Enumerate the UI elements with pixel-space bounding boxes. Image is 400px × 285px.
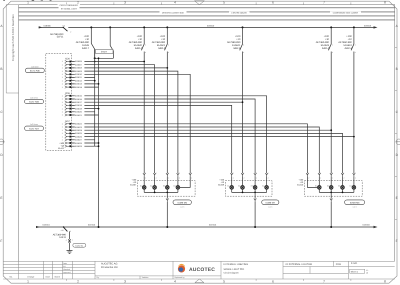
- svg-text:51B016: 51B016: [364, 25, 372, 28]
- pin 1 wire 51B010: [62, 73, 190, 173]
- svg-text:51B024: 51B024: [75, 129, 83, 132]
- svg-text:Tradition: Tradition: [142, 276, 149, 279]
- svg-text:XD6: XD6: [65, 58, 70, 61]
- title block frame: [3, 261, 395, 279]
- contact K5: [227, 26, 244, 173]
- svg-text:51B019: 51B019: [75, 107, 83, 110]
- bus line L2: [19, 11, 395, 13]
- pin 1 wire 51B021: [62, 114, 99, 117]
- wire 51B016 vertical: [0, 0, 321, 186]
- svg-text:2: 2: [77, 0, 79, 4]
- svg-text:51B006: 51B006: [75, 60, 83, 63]
- AD7 location text: [58, 142, 65, 150]
- svg-text:E: E: [0, 196, 2, 200]
- wire 51B008 vertical: [0, 0, 169, 186]
- svg-text:1: 1: [62, 104, 63, 107]
- svg-text:F: F: [0, 239, 2, 243]
- svg-text:Sheet 1: Sheet 1: [351, 270, 359, 273]
- switch 51F11: [63, 27, 67, 31]
- pin 1 wire 51B007: [62, 63, 155, 173]
- svg-text:51B012: 51B012: [75, 80, 83, 83]
- svg-text:1: 1: [62, 142, 63, 145]
- contact K4: [152, 26, 169, 173]
- cable capsule 51X1-A08: [25, 96, 44, 103]
- svg-text:E2: E2: [238, 185, 240, 188]
- svg-text:51A09: 51A09: [218, 184, 225, 187]
- wire 51B010 vertical: [0, 0, 192, 187]
- pin 1 wire 51B017: [62, 101, 244, 104]
- cable capsule 51X1-A06: [25, 65, 44, 72]
- svg-text:1: 1: [72, 238, 73, 241]
- svg-text:2019: 2019: [336, 263, 342, 266]
- bus label CENTRE ABOVE: [229, 12, 250, 15]
- lamp group M6 dashed box: [137, 181, 195, 197]
- drop wire to rail: [254, 192, 257, 227]
- svg-text:51B020: 51B020: [75, 111, 83, 114]
- lamp group M7 location text: [218, 178, 225, 186]
- pin 1 wire 51B020: [62, 111, 95, 114]
- lamp M6 E2: [150, 185, 156, 193]
- svg-text:/H92.4: /H92.4: [322, 47, 330, 50]
- svg-text:EXTERNAL LIGHTING: EXTERNAL LIGHTING: [224, 263, 249, 266]
- svg-text:3: 3: [124, 0, 126, 4]
- wire 51B015 vertical: [0, 0, 317, 187]
- pin 1 wire 51B012: [62, 79, 96, 82]
- pin 1 wire 51B014: [62, 86, 99, 89]
- svg-text:51MB-M6: 51MB-M6: [177, 202, 187, 205]
- pin 1 wire 51B015: [62, 95, 267, 174]
- bottom ticks: [67, 279, 351, 281]
- svg-text:AUCOTEC: AUCOTEC: [189, 267, 215, 273]
- svg-text:Name: Name: [55, 276, 61, 279]
- right centering mark: [396, 139, 400, 145]
- top column digits: [27, 0, 386, 4]
- svg-text:2: 2: [77, 279, 79, 283]
- capsule 51MB-M6: [173, 200, 191, 208]
- pin 1 wire 51B027: [62, 139, 95, 142]
- svg-text:No.: No.: [9, 276, 13, 279]
- wire 51B017 vertical: [0, 0, 333, 186]
- svg-text:51F11: 51F11: [57, 36, 64, 39]
- svg-text:1x2.5: 1x2.5: [353, 205, 357, 208]
- right cells: [286, 262, 369, 274]
- link box H927: [96, 49, 114, 53]
- svg-text:5: 5: [223, 0, 225, 4]
- pin 1 wire 51B024: [62, 129, 332, 132]
- wire 51B007 vertical: [0, 0, 157, 186]
- svg-text:51B019: 51B019: [0, 0, 55, 4]
- svg-text:51E015: 51E015: [88, 224, 96, 227]
- company cell: [97, 262, 185, 279]
- svg-text:E: E: [396, 196, 398, 200]
- project cell: [224, 263, 249, 274]
- bus label DRIVERS LOWER SIDE: [160, 11, 187, 14]
- feed arrow right: [374, 26, 378, 28]
- svg-text:7: 7: [323, 279, 325, 283]
- svg-text:1: 1: [62, 114, 63, 117]
- wire 51B014 vertical: [0, 0, 269, 186]
- svg-text:51B018: 51B018: [75, 104, 83, 107]
- cable capsule 51X1-A07: [25, 123, 44, 130]
- contact K2: [109, 26, 113, 53]
- svg-text:51MB-M7: 51MB-M7: [266, 202, 276, 205]
- svg-text:/H92.4: /H92.4: [135, 47, 143, 50]
- pin 1 wire 51B025: [62, 132, 343, 173]
- svg-text:1: 1: [62, 132, 63, 135]
- svg-text:Copyright nach ISO 16016 beach: Copyright nach ISO 16016 beachten: [11, 14, 15, 61]
- svg-text:/H92.4: /H92.4: [158, 47, 166, 50]
- junction: [330, 192, 332, 194]
- copyright strip: [6, 5, 18, 93]
- svg-text:1: 1: [62, 101, 63, 104]
- top centering triangle: [194, 1, 204, 5]
- K1-K2 join wire: [95, 53, 114, 58]
- svg-text:ElCable Rel 400: ElCable Rel 400: [101, 266, 118, 269]
- svg-text:E4: E4: [350, 185, 352, 188]
- svg-text:SIGNAL LIGHT PD1: SIGNAL LIGHT PD1: [224, 268, 246, 271]
- pin 1 wire 51B018: [62, 104, 232, 173]
- capsule 51MB-M7: [262, 200, 279, 208]
- bus label COMPANION SIDE LOWER: [330, 12, 361, 15]
- svg-text:6: 6: [272, 0, 274, 4]
- junction: [342, 192, 344, 194]
- svg-text:51B015: 51B015: [75, 95, 83, 98]
- bottom-left switch 51E11: [64, 227, 68, 231]
- pin 1 wire 51B019: [62, 107, 100, 110]
- lamp M7 E1: [227, 185, 233, 193]
- svg-text:51B010: 51B010: [207, 25, 215, 28]
- pin 1 wire 51B026: [62, 135, 355, 138]
- pin 1 wire 51B009: [62, 70, 178, 173]
- junction: [242, 192, 244, 194]
- svg-text:7: 7: [323, 0, 325, 4]
- svg-text:Circuit Diagram: Circuit Diagram: [224, 271, 239, 274]
- lamp M7 E2: [238, 185, 244, 193]
- approval labels: [63, 262, 70, 274]
- svg-text:1x2.5mm: 1x2.5mm: [30, 96, 38, 99]
- right row letters: [396, 24, 399, 243]
- svg-text:1: 1: [27, 279, 29, 283]
- junction: [254, 192, 256, 194]
- junction: [154, 192, 156, 194]
- pin 1 wire 51B028: [62, 142, 100, 145]
- lamp M6 E4: [174, 185, 180, 193]
- svg-text:E3: E3: [251, 185, 253, 188]
- svg-text:1: 1: [62, 63, 63, 66]
- svg-text:51B010: 51B010: [75, 73, 83, 76]
- svg-text:51B011: 51B011: [75, 76, 83, 79]
- svg-text:AUCOTEC AG: AUCOTEC AG: [101, 262, 117, 265]
- contact K6: [316, 26, 333, 173]
- lamp M8 E1: [315, 185, 321, 193]
- wire 51B011 vertical: [0, 0, 234, 186]
- svg-text:/H92.7: /H92.7: [82, 47, 90, 50]
- svg-text:51E015: 51E015: [209, 224, 217, 227]
- 51E11 capsule 51X1-E1: [73, 243, 86, 247]
- svg-text:1: 1: [62, 123, 63, 126]
- svg-text:F: F: [396, 239, 398, 243]
- svg-text:51MB-M8: 51MB-M8: [350, 202, 360, 205]
- lamp M8 E3: [338, 185, 344, 193]
- lamp M7 E4: [262, 185, 268, 193]
- svg-text:1: 1: [62, 135, 63, 138]
- pin 1 wire 51B022: [62, 123, 308, 174]
- svg-text:IR SIGNAL LIGHT: IR SIGNAL LIGHT: [61, 7, 78, 10]
- wire 51B013 vertical: [0, 0, 257, 186]
- svg-text:1: 1: [62, 70, 63, 73]
- svg-text:51X1-E1: 51X1-E1: [75, 244, 84, 247]
- wire 51B019 vertical: [0, 0, 356, 186]
- svg-text:XD6: XD6: [65, 92, 70, 95]
- bus line L3: [19, 15, 395, 17]
- svg-text:1: 1: [62, 95, 63, 98]
- svg-text:E3: E3: [338, 185, 340, 188]
- wire 51B009 vertical: [0, 0, 180, 186]
- svg-text:+10: +10: [61, 229, 64, 232]
- left row letters: [0, 24, 3, 243]
- svg-text:51B016: 51B016: [75, 98, 83, 101]
- svg-text:E4: E4: [262, 185, 264, 188]
- svg-text:51E014: 51E014: [43, 224, 51, 227]
- svg-text:01 EXTERNAL LIGHTING: 01 EXTERNAL LIGHTING: [286, 263, 313, 266]
- svg-text:51E016: 51E016: [363, 224, 371, 227]
- svg-text:E4: E4: [174, 185, 176, 188]
- right ticks: [395, 48, 397, 220]
- lamp group M8 dashed box: [304, 181, 362, 197]
- svg-text:DRIVERS LOWER SIDE: DRIVERS LOWER SIDE: [162, 11, 185, 14]
- svg-text:+100: +100: [219, 178, 225, 181]
- rail junctions: [98, 226, 100, 228]
- svg-text:1: 1: [62, 111, 63, 114]
- pin 1 wire 51B016: [62, 98, 255, 174]
- wire 51B006 vertical: [0, 0, 146, 186]
- feed source arrow: [39, 26, 43, 28]
- lamp M6 E1: [140, 185, 146, 193]
- bottom centering triangle: [195, 279, 204, 283]
- wire 51B012 vertical: [0, 0, 245, 186]
- svg-text:Date: Date: [63, 262, 67, 265]
- bus line L4: [19, 19, 395, 21]
- svg-text:1: 1: [62, 107, 63, 110]
- feed wire switched line: [39, 26, 376, 28]
- lamp group M7 dashed box: [225, 181, 272, 197]
- lamp group M6 location text: [130, 178, 137, 186]
- svg-text:COMPANION SIDE LOWER: COMPANION SIDE LOWER: [333, 12, 359, 15]
- bus label IR SIGNAL LIGHT: [59, 7, 80, 10]
- svg-text:1: 1: [62, 79, 63, 82]
- svg-text:1: 1: [62, 67, 63, 70]
- svg-text:E2: E2: [150, 185, 152, 188]
- svg-text:/H92.4: /H92.4: [233, 47, 241, 50]
- svg-text:51A07: 51A07: [130, 184, 137, 187]
- svg-text:51A10: 51A10: [297, 184, 304, 187]
- contact K1: [76, 26, 95, 58]
- lamp group M7 bus: [232, 191, 267, 193]
- svg-text:51B014: 51B014: [75, 86, 83, 89]
- lamp M6 E3: [163, 185, 169, 193]
- svg-text:1: 1: [62, 76, 63, 79]
- top ticks: [67, 2, 351, 4]
- pin 1 wire 51B008: [62, 67, 168, 70]
- junction: [94, 57, 96, 59]
- svg-text:51B023: 51B023: [75, 126, 83, 129]
- svg-text:1: 1: [62, 129, 63, 132]
- svg-text:8: 8: [384, 0, 386, 4]
- drop wire to rail: [166, 192, 169, 227]
- wire 51B018 vertical: [0, 0, 345, 186]
- svg-text:51B017: 51B017: [75, 101, 83, 104]
- svg-text:Replaced by: Replaced by: [175, 276, 185, 279]
- svg-text:10: 10: [366, 272, 368, 275]
- 51E11 drop wire: [68, 231, 71, 250]
- svg-text:51B022: 51B022: [75, 123, 83, 126]
- lamp group M6 bus: [144, 191, 178, 193]
- lamp group M8 location text: [297, 178, 304, 186]
- svg-text:51X1-A07: 51X1-A07: [29, 128, 40, 131]
- svg-text:51X1-A08: 51X1-A08: [29, 101, 40, 104]
- svg-text:Checked: Checked: [63, 268, 70, 271]
- svg-text:/H927: /H927: [101, 51, 108, 54]
- svg-text:1x2.5: 1x2.5: [180, 205, 184, 208]
- trunk T1: [94, 49, 96, 146]
- rail arrow: [374, 226, 378, 228]
- capsule 51MB-M8: [345, 200, 365, 208]
- lamp group M8 bus: [319, 191, 354, 193]
- svg-text:1: 1: [62, 73, 63, 76]
- svg-text:51B026: 51B026: [75, 135, 83, 138]
- svg-text:CIRCUIT BREAKER: CIRCUIT BREAKER: [60, 4, 79, 7]
- svg-text:1: 1: [62, 83, 63, 86]
- svg-text:E2: E2: [327, 185, 329, 188]
- svg-text:1: 1: [62, 86, 63, 89]
- svg-text:F-S01: F-S01: [351, 262, 358, 265]
- svg-text:E1: E1: [315, 185, 317, 188]
- svg-text:AD7: AD7: [65, 120, 70, 123]
- svg-text:51B008: 51B008: [75, 67, 83, 70]
- pin 1 wire 51B023: [62, 126, 320, 174]
- svg-text:CENTRE ABOVE: CENTRE ABOVE: [231, 12, 247, 15]
- svg-text:51B021: 51B021: [75, 114, 83, 117]
- lamp M8 E4: [350, 185, 356, 193]
- svg-text:2: 2: [70, 230, 71, 233]
- svg-text:4: 4: [174, 279, 176, 283]
- svg-text:B: B: [396, 67, 398, 71]
- svg-text:1: 1: [62, 139, 63, 142]
- trunk T2: [98, 58, 100, 227]
- svg-text:E1: E1: [227, 185, 229, 188]
- svg-text:E3: E3: [163, 185, 165, 188]
- bus label CIRCUIT BREAKER: [58, 4, 81, 7]
- junction: [166, 192, 168, 194]
- bus line L1: [19, 7, 395, 9]
- drop wire to rail: [330, 192, 333, 227]
- svg-text:5: 5: [223, 279, 225, 283]
- pin 1 wire 51B013: [62, 83, 100, 86]
- svg-text:51B005: 51B005: [44, 25, 52, 28]
- svg-text:51B009: 51B009: [75, 70, 83, 73]
- pin 1 wire 51B006: [62, 60, 145, 63]
- svg-text:1: 1: [62, 126, 63, 129]
- svg-text:4: 4: [174, 0, 176, 4]
- lamp M7 E3: [251, 185, 257, 193]
- svg-text:Change: Change: [27, 276, 35, 279]
- bottom ground rail: [64, 226, 376, 228]
- svg-text:Approved: Approved: [63, 271, 70, 274]
- svg-text:51B028: 51B028: [75, 142, 83, 145]
- svg-text:51B013: 51B013: [75, 83, 83, 86]
- svg-text:1: 1: [62, 145, 63, 148]
- svg-text:6: 6: [272, 279, 274, 283]
- aucotec logo: [178, 264, 215, 273]
- svg-text:2: 2: [70, 30, 71, 33]
- svg-text:51B025: 51B025: [75, 132, 83, 135]
- svg-text:1x2.5: 1x2.5: [268, 205, 272, 208]
- pin 1 wire 51B029: [62, 145, 100, 148]
- pin 1 wire 51B011: [62, 76, 95, 79]
- svg-text:a: a: [66, 239, 67, 241]
- ground symbol: [67, 251, 73, 254]
- svg-text:1: 1: [62, 98, 63, 101]
- svg-text:1x2.5mm: 1x2.5mm: [30, 123, 38, 126]
- svg-text:3: 3: [124, 279, 126, 283]
- svg-text:/H92.4: /H92.4: [345, 47, 353, 50]
- contact K7: [338, 26, 355, 173]
- svg-text:+10: +10: [62, 25, 65, 28]
- svg-text:51B029: 51B029: [75, 145, 83, 148]
- connector dashed box: [46, 54, 72, 151]
- svg-text:E1: E1: [140, 185, 142, 188]
- contact K3: [129, 26, 146, 173]
- svg-text:8: 8: [384, 279, 386, 283]
- svg-text:B: B: [0, 67, 2, 71]
- left centering mark: [0, 139, 4, 145]
- svg-text:51B007: 51B007: [75, 64, 83, 67]
- junction r1-T1: [94, 61, 96, 63]
- lamp M8 E2: [327, 185, 333, 193]
- bottom column digits: [27, 279, 386, 283]
- svg-text:51B027: 51B027: [75, 139, 83, 142]
- svg-text:1x2.5mm: 1x2.5mm: [31, 65, 39, 68]
- svg-text:1: 1: [62, 60, 63, 63]
- revision table labels: [9, 276, 60, 279]
- svg-text:51X1-A06: 51X1-A06: [30, 70, 41, 73]
